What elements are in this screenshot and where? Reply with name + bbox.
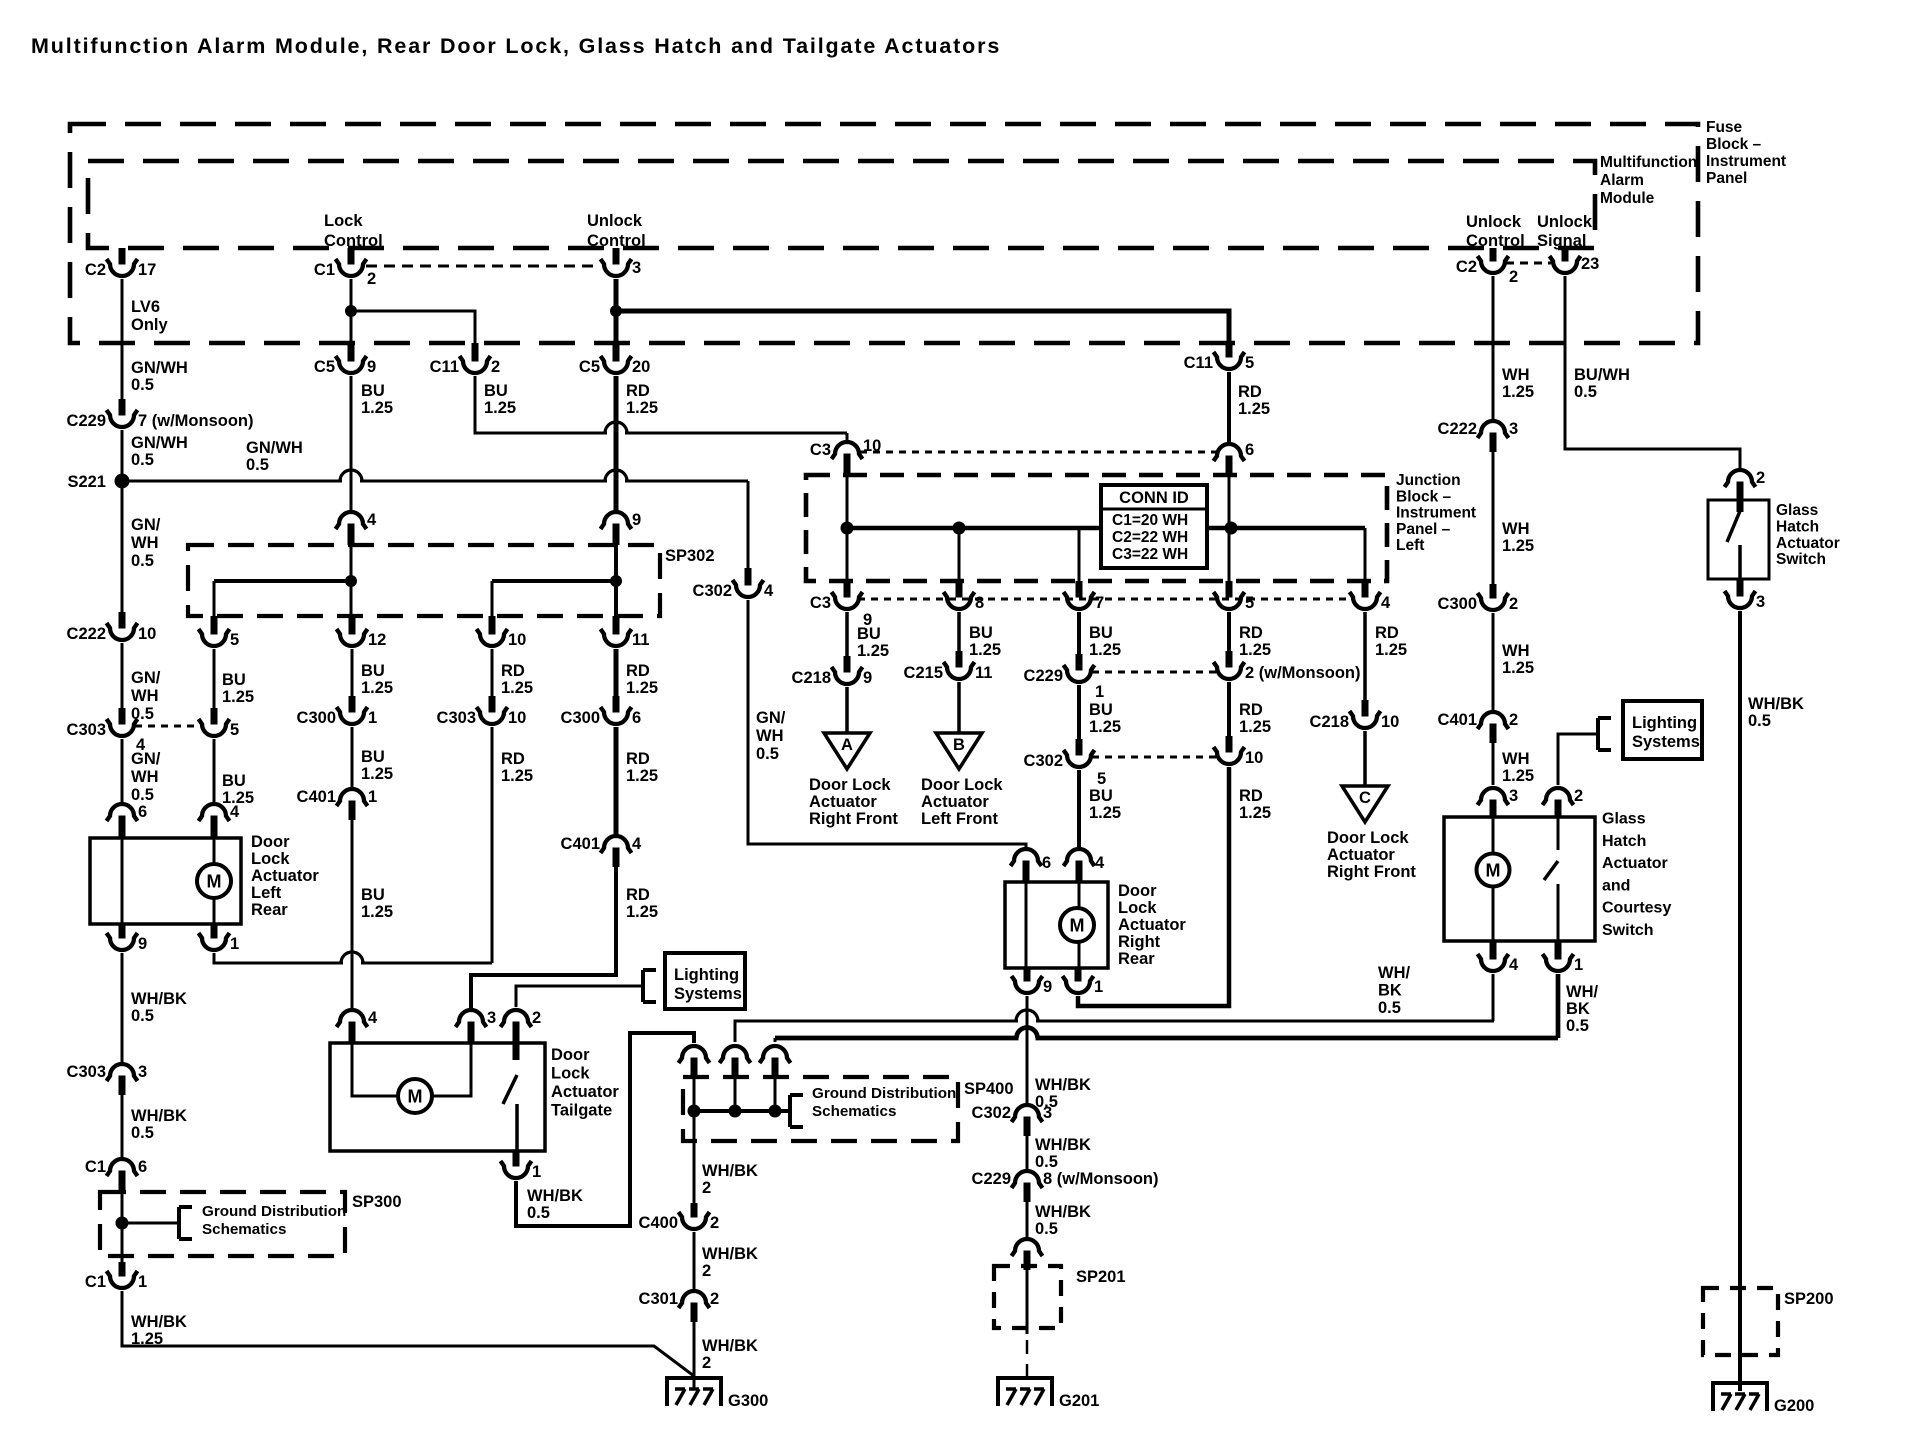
tailgate switch contact <box>515 1104 519 1151</box>
wire GHS-3 to SP200 (WH/BK 0.5) <box>1738 611 1742 1288</box>
wire pin8 to C215-11 <box>957 612 961 651</box>
connector C303 pin 3 <box>67 1063 148 1095</box>
glass hatch actuator and courtesy switch label <box>1602 811 1671 940</box>
svg-text:G200: G200 <box>1774 1397 1814 1415</box>
label RD 1.25 <box>1239 787 1271 822</box>
svg-text:1: 1 <box>1094 978 1103 996</box>
glass hatch actuator switch (box) <box>1708 500 1769 579</box>
motor door lock actuator left rear <box>197 864 231 898</box>
ground G200 <box>1713 1381 1814 1415</box>
connector C303 pin 5 <box>199 708 240 739</box>
svg-text:1: 1 <box>230 935 239 953</box>
SP200 label <box>1784 1290 1834 1308</box>
wire SP302-5 to C303-5 <box>213 649 216 708</box>
connector C302 pin 4 <box>693 568 774 600</box>
svg-text:C301: C301 <box>639 1290 678 1308</box>
label WH 1.25 <box>1502 366 1534 401</box>
svg-text:3: 3 <box>1509 420 1518 438</box>
wire C302-3 to C229-8 <box>1026 1136 1029 1172</box>
svg-text:C302: C302 <box>1024 752 1063 770</box>
svg-text:Actuator: Actuator <box>1602 855 1668 872</box>
svg-text:4: 4 <box>632 835 642 853</box>
pin 3 unlock control <box>601 248 642 277</box>
svg-text:C229: C229 <box>67 412 106 430</box>
svg-text:1: 1 <box>368 709 377 727</box>
dotted link C302-5 to C302-10 <box>1092 756 1216 759</box>
label GN/WH 0.5 (S221 branch) <box>246 439 303 474</box>
wire C218-10 to triangle C <box>1363 731 1367 786</box>
label WH/BK 0.5 (pin1) <box>1566 983 1598 1035</box>
svg-text:C1=20 WH: C1=20 WH <box>1112 512 1188 529</box>
svg-text:Junction: Junction <box>1396 472 1461 489</box>
label RD 1.25 <box>501 662 533 697</box>
junction node bus-left <box>841 522 854 535</box>
svg-text:WH/BK: WH/BK <box>702 1162 758 1180</box>
wire C1-2 to junction <box>350 279 353 311</box>
svg-text:2: 2 <box>702 1179 711 1197</box>
label BU 1.25 <box>361 886 393 921</box>
splice node SP400-2 <box>729 1105 742 1118</box>
svg-text:1.25: 1.25 <box>361 679 393 697</box>
off-page triangle B <box>936 733 982 769</box>
connector C303 link (dotted) <box>135 725 200 728</box>
junction node bus-right <box>1225 522 1238 535</box>
svg-text:0.5: 0.5 <box>131 376 154 394</box>
svg-text:BU: BU <box>361 382 385 400</box>
lock control label <box>324 212 383 250</box>
svg-text:Actuator: Actuator <box>1776 535 1840 552</box>
svg-text:WH/: WH/ <box>1566 983 1598 1001</box>
SP302 label <box>665 547 715 565</box>
svg-text:G300: G300 <box>728 1392 768 1410</box>
svg-text:5: 5 <box>1097 770 1106 788</box>
svg-text:Panel: Panel <box>1706 170 1747 187</box>
svg-text:0.5: 0.5 <box>131 552 154 570</box>
svg-text:WH: WH <box>131 534 159 552</box>
svg-text:Door: Door <box>251 833 290 851</box>
svg-text:C215: C215 <box>904 664 943 682</box>
svg-text:11: 11 <box>975 664 992 682</box>
svg-text:CONN ID: CONN ID <box>1119 489 1189 507</box>
svg-text:8: 8 <box>975 594 984 612</box>
svg-text:Lock: Lock <box>324 212 363 230</box>
connector C222 pin 3 <box>1438 420 1519 452</box>
svg-text:1.25: 1.25 <box>626 399 658 417</box>
svg-text:Switch: Switch <box>1602 922 1654 939</box>
connector C302 pin 10 <box>1214 736 1264 767</box>
svg-text:0.5: 0.5 <box>131 451 154 469</box>
svg-text:6: 6 <box>1245 441 1254 459</box>
svg-text:RD: RD <box>1239 787 1263 805</box>
label BU 1.25 <box>361 662 393 697</box>
svg-text:Door Lock: Door Lock <box>921 776 1003 794</box>
svg-text:0.5: 0.5 <box>527 1204 550 1222</box>
wire C3-10 to junction block bus <box>846 474 849 581</box>
connector C302 pin 3 <box>972 1104 1053 1136</box>
svg-text:1.25: 1.25 <box>1238 400 1270 418</box>
dotted link C229-1 to C229-2 <box>1092 671 1216 674</box>
label WH 1.25 <box>1502 520 1534 555</box>
svg-text:GN/WH: GN/WH <box>131 434 188 452</box>
svg-text:Right: Right <box>1118 933 1161 951</box>
label GN/WH 0.5 <box>131 359 188 394</box>
label GN/WH 0.5 <box>131 669 161 723</box>
wire C229-8 to SP201 <box>1026 1202 1029 1240</box>
svg-text:11: 11 <box>632 631 649 649</box>
svg-text:9: 9 <box>1043 978 1052 996</box>
svg-text:0.5: 0.5 <box>1035 1220 1058 1238</box>
wire C303-5 to left-rear actuator pin 4 <box>213 739 216 805</box>
wire motor to glass pin 4 <box>1492 887 1495 941</box>
connector C229 pin 2 <box>1214 651 1361 682</box>
label GN/WH 0.5 <box>131 516 161 570</box>
wire junction to C5-20 <box>614 311 619 344</box>
dotted link C3-10 to C3-6 <box>860 451 1216 454</box>
svg-text:Schematics: Schematics <box>202 1221 286 1238</box>
svg-text:5: 5 <box>1245 354 1254 372</box>
svg-text:Actuator: Actuator <box>1327 846 1395 864</box>
svg-text:2: 2 <box>1574 787 1583 805</box>
glass hatch switch blade <box>1544 861 1558 880</box>
wire motor to right-rear pin 1 <box>1078 942 1081 967</box>
svg-text:3: 3 <box>1043 1104 1052 1122</box>
svg-text:C303: C303 <box>437 709 476 727</box>
svg-text:4: 4 <box>1095 854 1105 872</box>
label WH 1.25 <box>1502 750 1534 785</box>
svg-text:7: 7 <box>1095 594 1104 612</box>
svg-text:3: 3 <box>632 259 641 277</box>
door lock actuator tailgate (box) <box>330 1043 545 1151</box>
wire junction down to C5-9 <box>350 311 353 344</box>
wire SP400 pin3 riser up to WH/BK line <box>775 1028 1558 1112</box>
svg-text:5: 5 <box>230 631 239 649</box>
pin 4 door lock actuator left rear <box>199 803 241 838</box>
connector C401 pin 1 <box>297 788 378 820</box>
svg-text:C401: C401 <box>1438 711 1477 729</box>
svg-text:C300: C300 <box>1438 595 1477 613</box>
pin into splice SP201 <box>1012 1239 1043 1270</box>
svg-text:23: 23 <box>1581 255 1599 273</box>
svg-text:C2: C2 <box>85 261 106 279</box>
svg-text:Actuator: Actuator <box>921 793 989 811</box>
svg-text:10: 10 <box>1245 749 1263 767</box>
door lock actuator right rear (box) <box>1005 882 1108 968</box>
svg-text:BK: BK <box>1566 1000 1590 1018</box>
svg-text:Fuse: Fuse <box>1706 119 1743 136</box>
label RD 1.25 <box>626 662 658 697</box>
svg-text:WH/BK: WH/BK <box>131 990 187 1008</box>
wire SP302-10 to C303-10 <box>491 649 494 696</box>
svg-text:3: 3 <box>1509 787 1518 805</box>
pin 2 glass hatch actuator switch <box>1725 469 1766 502</box>
wire C3-9 to C218-9 <box>845 612 849 656</box>
wire through SP201 <box>1026 1270 1029 1334</box>
svg-text:S221: S221 <box>67 473 106 491</box>
svg-text:RD: RD <box>501 750 525 768</box>
svg-text:WH/BK: WH/BK <box>1035 1203 1091 1221</box>
pin 6 door lock actuator right rear <box>1011 849 1052 882</box>
glass hatch actuator switch contact <box>1738 545 1742 579</box>
connector C229 pin 8 <box>972 1170 1159 1202</box>
dashed wire SP201 to G201 <box>1026 1340 1029 1376</box>
splice SP201 (dashed box) <box>994 1266 1061 1328</box>
svg-text:2: 2 <box>1756 469 1765 487</box>
pin 3 of SP400 <box>760 1046 791 1076</box>
svg-text:1: 1 <box>368 788 377 806</box>
svg-text:9: 9 <box>138 935 147 953</box>
svg-text:2: 2 <box>702 1354 711 1372</box>
svg-text:4: 4 <box>764 582 774 600</box>
svg-text:1.25: 1.25 <box>501 767 533 785</box>
off-page triangle A <box>824 733 870 769</box>
label RD 1.25 <box>1375 624 1407 659</box>
pin 7 of junction block <box>1064 581 1105 612</box>
svg-text:WH/: WH/ <box>1378 964 1410 982</box>
svg-text:0.5: 0.5 <box>756 745 779 763</box>
svg-text:C229: C229 <box>1024 667 1063 685</box>
svg-text:1.25: 1.25 <box>1502 767 1534 785</box>
svg-text:2: 2 <box>702 1262 711 1280</box>
wire C300-2 to C401-2 <box>1492 613 1495 713</box>
connector C229 pin 1 <box>1024 654 1105 701</box>
connector C11 pin 5 <box>1184 341 1255 372</box>
label RD 1.25 <box>501 750 533 785</box>
wire C11-5 to C3-6 <box>1227 372 1231 445</box>
svg-text:2: 2 <box>532 1009 541 1027</box>
wire right-rear pin9 to C302-3 (WH/BK 0.5) <box>1026 996 1029 1106</box>
pin 11 of SP302 <box>601 616 650 649</box>
svg-text:Lock: Lock <box>251 850 290 868</box>
svg-text:2: 2 <box>1509 711 1518 729</box>
svg-text:RD: RD <box>501 662 525 680</box>
label BU 1.25 <box>1089 787 1121 822</box>
svg-text:3: 3 <box>1756 593 1765 611</box>
svg-text:20: 20 <box>632 358 650 376</box>
svg-text:1.25: 1.25 <box>1089 718 1121 736</box>
svg-text:1.25: 1.25 <box>501 679 533 697</box>
svg-text:Multifunction: Multifunction <box>1600 154 1697 171</box>
svg-text:1.25: 1.25 <box>361 903 393 921</box>
label WH/BK 2 <box>702 1245 758 1280</box>
pin 4 glass hatch actuator <box>1478 941 1520 974</box>
wire C301-2 to ground G300 <box>693 1322 696 1388</box>
svg-text:1.25: 1.25 <box>1239 641 1271 659</box>
splice SP300 (dashed box) <box>100 1192 345 1256</box>
unlock signal label <box>1537 213 1593 250</box>
svg-text:6: 6 <box>1042 854 1051 872</box>
connector C222 pin 10 <box>67 612 157 643</box>
wire C2-17 to C229-7 (GN/WH 0.5) <box>121 279 124 399</box>
label RD 1.25 <box>626 886 658 921</box>
svg-text:C1: C1 <box>314 261 335 279</box>
svg-text:GN/WH: GN/WH <box>131 359 188 377</box>
svg-text:1.25: 1.25 <box>969 641 1001 659</box>
svg-text:SP201: SP201 <box>1076 1268 1126 1286</box>
connector C1 pin 6 <box>85 1158 147 1190</box>
svg-text:1.25: 1.25 <box>626 767 658 785</box>
wire SP302-9 into splice bus <box>614 545 618 581</box>
label WH/BK 1.25 <box>131 1313 187 1348</box>
svg-text:Actuator: Actuator <box>809 793 877 811</box>
pin 1 door lock actuator left rear <box>199 924 240 953</box>
svg-text:SP200: SP200 <box>1784 1290 1834 1308</box>
pin 2 door lock actuator tailgate <box>501 1009 542 1043</box>
wire C302-10 to right-rear pin 1 <box>1078 767 1229 1006</box>
svg-text:10: 10 <box>138 625 156 643</box>
pin 23 unlock signal <box>1550 248 1600 273</box>
motor door lock actuator tailgate <box>398 1079 432 1113</box>
wire SP302-11 to C300-6 <box>614 649 619 696</box>
wire glass pin2 to lighting bracket <box>1558 734 1598 785</box>
wire C222-3 to C300-2 <box>1492 452 1495 584</box>
svg-text:C222: C222 <box>1438 420 1477 438</box>
svg-text:RD: RD <box>1375 624 1399 642</box>
svg-text:BU: BU <box>969 624 993 642</box>
SP302 bus segment A <box>214 581 351 616</box>
svg-text:C5: C5 <box>579 358 600 376</box>
svg-text:Door Lock: Door Lock <box>1327 829 1409 847</box>
SP400 bus <box>694 1109 790 1113</box>
svg-text:Switch: Switch <box>1776 551 1826 568</box>
off-page bracket lighting systems (glass) <box>1598 718 1611 750</box>
svg-text:WH/BK: WH/BK <box>527 1187 583 1205</box>
pin 4 door lock actuator right rear <box>1064 849 1106 882</box>
svg-text:10: 10 <box>508 631 526 649</box>
svg-text:Rear: Rear <box>251 901 288 919</box>
svg-text:9: 9 <box>367 358 376 376</box>
svg-text:2: 2 <box>367 270 376 288</box>
svg-text:and: and <box>1602 877 1630 894</box>
svg-text:10: 10 <box>508 709 526 727</box>
svg-text:GN/: GN/ <box>131 750 161 768</box>
svg-text:WH: WH <box>131 687 159 705</box>
door lock actuator left rear label <box>251 833 319 919</box>
tailgate switch blade <box>503 1075 517 1104</box>
fuse block label <box>1706 119 1786 187</box>
svg-text:0.5: 0.5 <box>131 1007 154 1025</box>
svg-text:BU: BU <box>361 662 385 680</box>
svg-text:Block –: Block – <box>1396 488 1452 505</box>
wire pin3 to junction <box>614 279 619 311</box>
svg-text:C218: C218 <box>792 669 831 687</box>
svg-text:1: 1 <box>1095 683 1104 701</box>
svg-text:9: 9 <box>632 511 641 529</box>
svg-text:WH/BK: WH/BK <box>131 1107 187 1125</box>
pin 9 door lock actuator left rear <box>107 924 148 953</box>
svg-text:C218: C218 <box>1310 713 1349 731</box>
svg-text:1.25: 1.25 <box>1502 659 1534 677</box>
svg-text:Alarm: Alarm <box>1600 172 1644 189</box>
wire glass pin4 down to WH/BK line <box>1493 974 1494 1021</box>
svg-text:WH: WH <box>1502 642 1530 660</box>
wire C300-1 to C401-1 <box>351 727 354 790</box>
svg-text:Actuator: Actuator <box>551 1083 619 1101</box>
unlock control label (left) <box>587 212 646 250</box>
svg-text:17: 17 <box>138 261 156 279</box>
svg-text:Right Front: Right Front <box>809 810 898 828</box>
svg-text:Ground Distribution: Ground Distribution <box>812 1085 956 1102</box>
svg-text:RD: RD <box>1239 624 1263 642</box>
svg-text:WH/BK: WH/BK <box>702 1337 758 1355</box>
wire C229-2 to C302-10 <box>1227 682 1231 736</box>
svg-text:M: M <box>1070 916 1085 936</box>
pin 1 door lock actuator tailgate <box>501 1152 542 1181</box>
label RD 1.25 <box>1239 701 1271 736</box>
svg-text:Left: Left <box>1396 537 1424 554</box>
label BU 1.25 <box>222 671 254 706</box>
connector C218 pin 10 <box>1310 700 1400 731</box>
svg-text:C401: C401 <box>297 788 336 806</box>
svg-text:RD: RD <box>1238 383 1262 401</box>
svg-text:BU: BU <box>1089 701 1113 719</box>
svg-text:C300: C300 <box>561 709 600 727</box>
wire SP400 pin1 riser <box>693 1076 696 1111</box>
wire junction to C11-2 <box>351 311 475 343</box>
connector C2 pin 2 <box>1456 248 1518 286</box>
svg-text:4: 4 <box>1509 956 1519 974</box>
splice SP300 node <box>116 1217 129 1230</box>
label BU 1.25 <box>1089 624 1121 659</box>
label WH/BK 0.5 <box>1035 1136 1091 1171</box>
label WH/BK 0.5 <box>1748 695 1804 730</box>
svg-text:8 (w/Monsoon): 8 (w/Monsoon) <box>1043 1170 1158 1188</box>
junction node bus-mid <box>953 522 966 535</box>
svg-text:1.25: 1.25 <box>1502 537 1534 555</box>
wire LR pin1 to RD wire x492 <box>214 952 492 966</box>
splice node SP400-3 <box>769 1105 782 1118</box>
pin 3 door lock actuator tailgate <box>456 1009 497 1043</box>
title <box>31 34 1001 58</box>
svg-text:4: 4 <box>1381 594 1391 612</box>
wire C5-9 to SP302 pin 4 <box>350 376 353 512</box>
label GN/WH 0.5 <box>131 750 161 804</box>
svg-text:4: 4 <box>367 511 377 529</box>
svg-text:Actuator: Actuator <box>251 867 319 885</box>
svg-text:G201: G201 <box>1059 1392 1099 1410</box>
svg-text:Only: Only <box>131 316 168 334</box>
wire C401-1 to tailgate pin 4 <box>351 820 354 1010</box>
wire inside right-rear (left leg) <box>1025 882 1028 967</box>
lighting systems box (glass) <box>1623 701 1702 759</box>
svg-text:SP302: SP302 <box>665 547 715 565</box>
multifunction alarm module (dashed box) <box>88 161 1595 248</box>
svg-text:WH: WH <box>1502 520 1530 538</box>
svg-text:C5: C5 <box>314 358 335 376</box>
connector C401 pin 4 <box>561 835 642 867</box>
wire C302-5 to right-rear pin 4 <box>1077 770 1081 849</box>
svg-text:Module: Module <box>1600 190 1655 207</box>
label WH/BK 0.5 <box>527 1187 583 1222</box>
wire SP300 tap to bracket <box>122 1222 179 1225</box>
wire bus to SP302 pin 11 <box>614 581 618 616</box>
svg-text:Block –: Block – <box>1706 136 1762 153</box>
label WH/BK 0.5 <box>1035 1076 1091 1111</box>
wire bus drop to pin 8 <box>958 528 961 581</box>
svg-text:Door: Door <box>1118 882 1157 900</box>
wire C229-1 to C302-5 <box>1077 685 1081 739</box>
label GN/WH 0.5 <box>131 434 188 469</box>
wire pin9 to C303-3 (WH/BK 0.5) <box>121 953 124 1064</box>
wire pin23 to glass hatch switch <box>1565 276 1740 468</box>
svg-text:1.25: 1.25 <box>626 903 658 921</box>
svg-text:BU: BU <box>361 886 385 904</box>
wire pin5 to C229-2 <box>1227 612 1231 651</box>
junction block - instrument panel left (dashed box) <box>806 475 1387 581</box>
svg-text:M: M <box>207 872 222 892</box>
off-page triangle C <box>1342 786 1388 822</box>
dashed link C2-2 to 23 <box>1506 262 1551 265</box>
junction node at lock wire <box>345 305 357 317</box>
